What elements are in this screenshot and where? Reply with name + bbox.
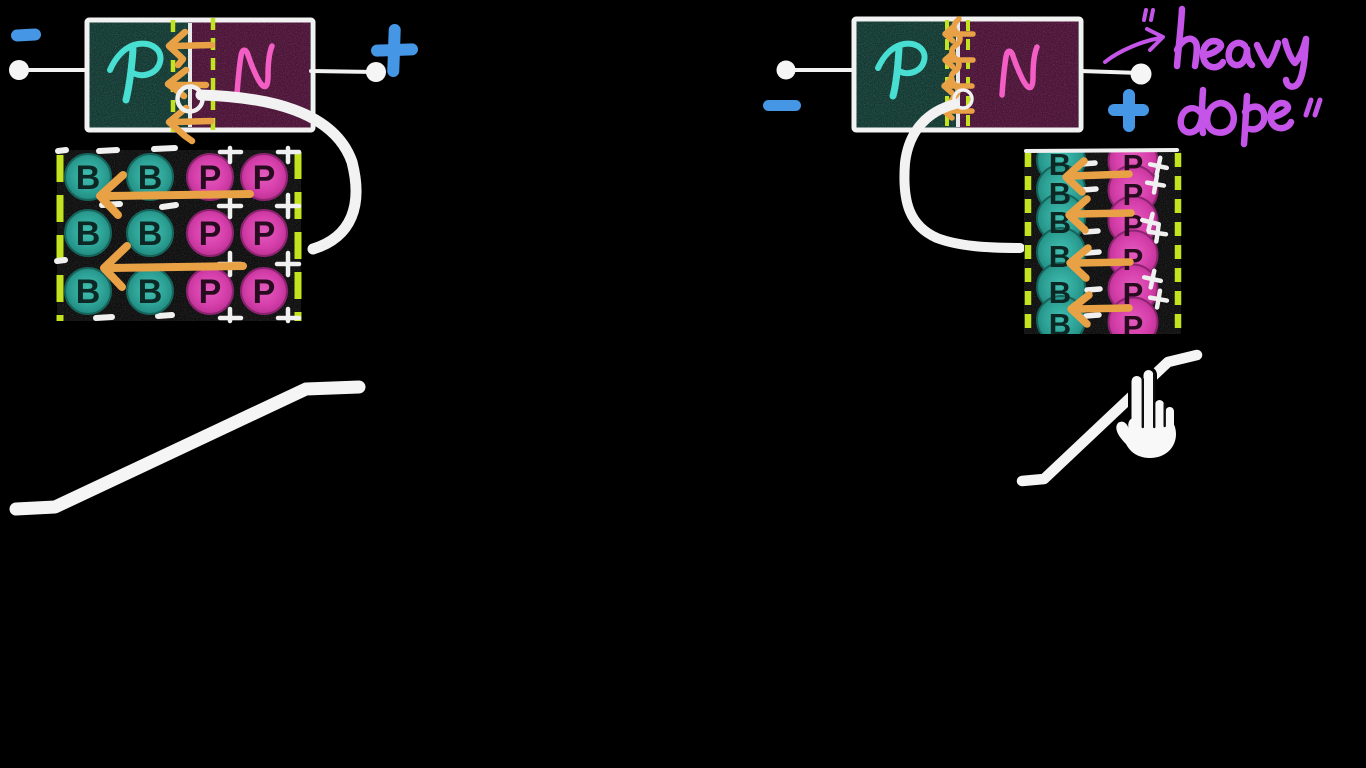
depletion edge (dashed yellow, right, right box) bbox=[1175, 153, 1182, 333]
B atom row3 col2 bbox=[127, 268, 173, 314]
arrow (ion movement, middle) bbox=[168, 70, 206, 96]
diode D1 body N region fill bbox=[190, 22, 310, 128]
B atom row1 col1 bbox=[65, 154, 111, 200]
junction divider line bbox=[188, 23, 192, 127]
node (left terminal dot D2) bbox=[777, 61, 796, 80]
label - (negative terminal, blue) bbox=[11, 28, 42, 42]
svg-text:B: B bbox=[1049, 239, 1071, 274]
close quote mark bbox=[1306, 100, 1320, 115]
svg-text:P: P bbox=[199, 215, 222, 253]
diode D2 body outline bbox=[854, 19, 1081, 130]
depletion edge (dashed yellow, left, right box) bbox=[1025, 153, 1032, 333]
junction divider line D2 bbox=[956, 22, 960, 127]
wire (left lead of D1) bbox=[20, 68, 90, 72]
P labels (right box) bbox=[1123, 148, 1144, 344]
arrow (hole flow 1, right box) bbox=[1066, 161, 1129, 192]
barrier ramp curve (right) bbox=[1022, 355, 1197, 481]
annotation arrow (purple) bbox=[1105, 29, 1163, 62]
node (right terminal dot) bbox=[366, 62, 386, 82]
label P (cyan, D2) bbox=[878, 44, 925, 73]
label - (negative terminal D2) bbox=[763, 100, 801, 111]
B atom row1 col2 bbox=[127, 154, 173, 200]
word "heavy" bbox=[1177, 9, 1306, 87]
wire (right lead of D1) bbox=[311, 71, 375, 72]
texture on D1 body bbox=[89, 22, 310, 128]
svg-text:B: B bbox=[76, 159, 101, 197]
squiggle arrows at junction D2 bbox=[944, 19, 973, 118]
svg-text:B: B bbox=[138, 215, 163, 253]
label P (cyan, P-region) bbox=[110, 44, 160, 75]
P atom row1 col4 bbox=[241, 154, 287, 200]
P atom row3 col4 bbox=[241, 268, 287, 314]
junction circle (zoom origin) bbox=[178, 87, 203, 112]
wire (left lead of D2) bbox=[787, 68, 856, 72]
P atom row1 col3 bbox=[187, 154, 233, 200]
node (right terminal dot D2) bbox=[1131, 64, 1152, 85]
arrow (hole flow 4, right box) bbox=[1071, 295, 1129, 324]
depletion boundary (dashed, left, D2) bbox=[945, 20, 949, 132]
diode D2 body N region fill bbox=[958, 21, 1078, 128]
open quote mark bbox=[1144, 10, 1153, 20]
label N (pink, N-region) bbox=[237, 46, 272, 94]
label + (positive terminal D2) bbox=[1108, 89, 1149, 132]
donor ion plus signs (right box) bbox=[1140, 156, 1168, 309]
arrow (ion movement, top) bbox=[169, 32, 212, 65]
acceptor ions (white minus dashes) bbox=[57, 148, 176, 318]
finger separation lines bbox=[1143, 374, 1165, 427]
svg-text:B: B bbox=[1049, 205, 1071, 240]
acceptor ion dashes (right box) bbox=[1082, 163, 1100, 316]
P atom row3 col3 bbox=[187, 268, 233, 314]
B labels (right box) bbox=[1049, 147, 1071, 342]
lattice box background (right) bbox=[1024, 149, 1181, 334]
donor ions (white plus signs) bbox=[219, 148, 299, 321]
P atom row2 col4 bbox=[241, 210, 287, 256]
arrow (hole flow 3, right box) bbox=[1070, 248, 1130, 278]
P atom column (right box) bbox=[1109, 137, 1158, 347]
svg-text:B: B bbox=[1049, 275, 1071, 310]
barrier ramp curve (left) bbox=[16, 387, 359, 509]
lattice box background bbox=[57, 150, 301, 321]
arrow (ion movement, bottom) bbox=[169, 108, 211, 141]
arrow (hole diffusion, row gap 1) bbox=[100, 175, 250, 215]
label + (positive terminal, blue) bbox=[371, 24, 418, 77]
B atom row2 col2 bbox=[127, 210, 173, 256]
svg-text:B: B bbox=[76, 273, 101, 311]
svg-text:P: P bbox=[199, 273, 222, 311]
hand cursor halo (dark outline) bbox=[1116, 370, 1176, 458]
depletion edge (dashed yellow, right) bbox=[295, 152, 302, 321]
B atom row3 col1 bbox=[65, 268, 111, 314]
arrow (hole diffusion, row gap 2) bbox=[104, 246, 243, 287]
diode D1 body P region fill bbox=[89, 22, 190, 128]
depletion boundary (dashed, right) bbox=[211, 18, 216, 133]
wire (right lead of D2) bbox=[1081, 71, 1140, 73]
hand cursor (white pointer) bbox=[1116, 370, 1176, 458]
node (left terminal dot) bbox=[9, 60, 29, 80]
diode D2 body P region fill bbox=[856, 21, 958, 128]
B atom row2 col1 bbox=[65, 210, 111, 256]
depletion boundary (dashed, right, D2) bbox=[966, 20, 970, 132]
texture on D2 body bbox=[856, 21, 1078, 128]
junction circle (zoom origin D2) bbox=[954, 90, 972, 108]
top border (right box) bbox=[1026, 150, 1177, 151]
svg-text:B: B bbox=[138, 273, 163, 311]
word "dope" with close quote bbox=[1181, 90, 1291, 144]
B atom column (right box) bbox=[1037, 136, 1085, 344]
diode D1 body outline bbox=[87, 20, 313, 130]
wire (zoom callout curve, right) bbox=[904, 104, 1020, 248]
svg-text:P: P bbox=[253, 215, 276, 253]
depletion boundary (dashed, left) bbox=[171, 20, 176, 133]
svg-text:P: P bbox=[253, 159, 276, 197]
label N (pink, D2) bbox=[1002, 47, 1037, 95]
svg-text:P: P bbox=[1123, 177, 1144, 212]
svg-text:P: P bbox=[253, 273, 276, 311]
arrow (hole flow 2, right box) bbox=[1069, 199, 1131, 230]
depletion edge (dashed yellow, left) bbox=[57, 155, 64, 321]
P atom row2 col3 bbox=[187, 210, 233, 256]
svg-text:B: B bbox=[76, 215, 101, 253]
wire (zoom callout curve, left) bbox=[201, 95, 356, 249]
